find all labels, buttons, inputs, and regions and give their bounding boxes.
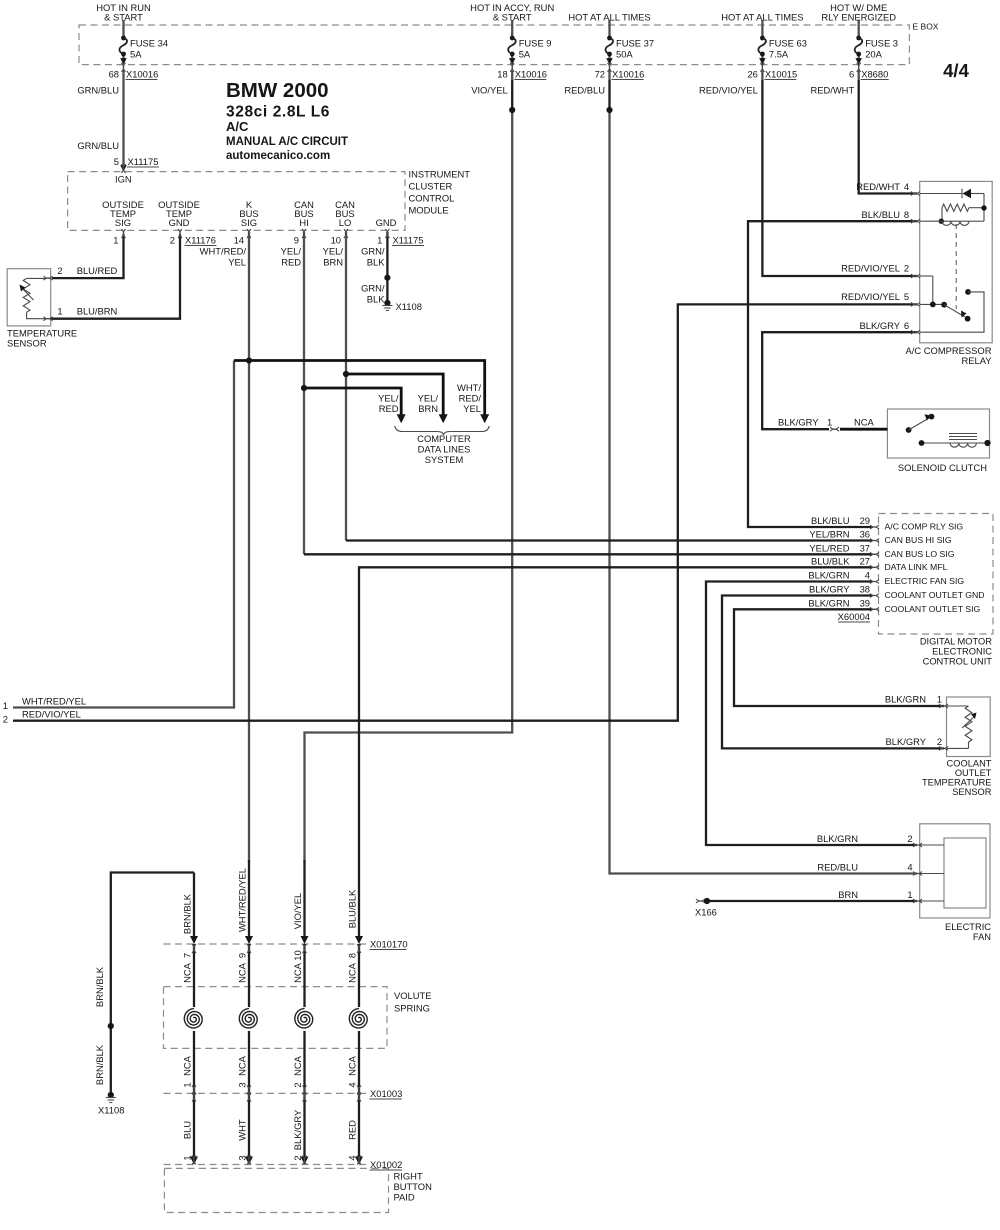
svg-text:328ci 2.8L L6: 328ci 2.8L L6 xyxy=(226,104,330,121)
svg-text:automecanico.com: automecanico.com xyxy=(226,150,330,162)
svg-text:FUSE 34: FUSE 34 xyxy=(130,38,168,49)
svg-text:MANUAL A/C CIRCUIT: MANUAL A/C CIRCUIT xyxy=(226,136,348,148)
svg-text:IGN: IGN xyxy=(115,174,132,185)
svg-text:7: 7 xyxy=(182,953,193,958)
svg-text:YEL/BRN: YEL/BRN xyxy=(809,529,849,540)
svg-text:BLK/GRY: BLK/GRY xyxy=(809,584,850,595)
svg-text:1: 1 xyxy=(57,306,62,317)
svg-text:36: 36 xyxy=(860,529,870,540)
svg-text:INSTRUMENT: INSTRUMENT xyxy=(409,169,471,180)
svg-text:4: 4 xyxy=(904,181,909,192)
svg-text:14: 14 xyxy=(234,235,244,246)
svg-text:BLK/GRN: BLK/GRN xyxy=(885,694,926,705)
svg-text:10: 10 xyxy=(292,950,303,960)
svg-text:PAID: PAID xyxy=(394,1192,415,1203)
svg-text:6: 6 xyxy=(849,69,854,80)
svg-text:X10016: X10016 xyxy=(126,69,158,80)
svg-text:GND: GND xyxy=(169,217,190,228)
svg-text:FUSE 37: FUSE 37 xyxy=(616,38,654,49)
svg-text:72: 72 xyxy=(595,69,605,80)
svg-text:2: 2 xyxy=(907,833,912,844)
svg-text:X11175: X11175 xyxy=(393,235,424,246)
svg-text:BRN: BRN xyxy=(838,889,858,900)
svg-text:7.5A: 7.5A xyxy=(769,49,789,60)
svg-text:RED/VIO/YEL: RED/VIO/YEL xyxy=(22,709,81,720)
svg-text:YEL/: YEL/ xyxy=(281,246,302,257)
svg-text:1: 1 xyxy=(827,417,832,428)
svg-text:X11175: X11175 xyxy=(128,156,159,167)
svg-text:RED/: RED/ xyxy=(459,393,482,404)
svg-text:27: 27 xyxy=(860,555,870,566)
svg-text:WHT: WHT xyxy=(237,1119,248,1141)
svg-text:39: 39 xyxy=(860,597,870,608)
svg-text:VIO/YEL: VIO/YEL xyxy=(292,893,303,929)
svg-text:RED/WHT: RED/WHT xyxy=(810,85,854,96)
svg-text:YEL/: YEL/ xyxy=(378,393,399,404)
svg-text:BLK/GRY: BLK/GRY xyxy=(292,1109,303,1150)
svg-text:5A: 5A xyxy=(130,49,142,60)
svg-text:NCA: NCA xyxy=(182,1055,193,1076)
svg-text:GRN/: GRN/ xyxy=(361,283,385,294)
svg-text:RED/WHT: RED/WHT xyxy=(856,181,900,192)
svg-text:2: 2 xyxy=(292,1082,303,1087)
svg-text:2: 2 xyxy=(170,235,175,246)
svg-text:NCA: NCA xyxy=(292,962,303,983)
svg-text:RED/VIO/YEL: RED/VIO/YEL xyxy=(699,85,758,96)
svg-text:9: 9 xyxy=(237,953,248,958)
svg-text:4/4: 4/4 xyxy=(943,60,969,81)
svg-text:YEL/: YEL/ xyxy=(323,246,344,257)
svg-text:RED/BLU: RED/BLU xyxy=(817,862,858,873)
svg-text:YEL: YEL xyxy=(228,257,246,268)
svg-text:A/C COMP RLY SIG: A/C COMP RLY SIG xyxy=(885,522,964,532)
svg-text:NCA: NCA xyxy=(292,1055,303,1076)
svg-text:4: 4 xyxy=(865,570,870,581)
svg-text:BUTTON: BUTTON xyxy=(394,1181,432,1192)
svg-text:NCA: NCA xyxy=(237,962,248,983)
svg-text:50A: 50A xyxy=(616,49,633,60)
svg-text:RED: RED xyxy=(347,1120,358,1140)
svg-text:FUSE 63: FUSE 63 xyxy=(769,38,807,49)
svg-text:OUTLET: OUTLET xyxy=(955,768,992,778)
svg-text:BLK/GRN: BLK/GRN xyxy=(808,597,849,608)
svg-text:SYSTEM: SYSTEM xyxy=(425,454,464,465)
svg-text:BLK/BLU: BLK/BLU xyxy=(861,209,900,220)
svg-text:& START: & START xyxy=(104,12,143,23)
svg-text:BLK/BLU: BLK/BLU xyxy=(811,515,850,526)
svg-text:& START: & START xyxy=(493,12,532,23)
svg-text:FUSE 3: FUSE 3 xyxy=(865,38,898,49)
svg-text:SENSOR: SENSOR xyxy=(7,337,47,348)
svg-text:HOT AT ALL TIMES: HOT AT ALL TIMES xyxy=(568,12,650,23)
svg-text:CONTROL UNIT: CONTROL UNIT xyxy=(923,657,993,667)
svg-text:WHT/RED/YEL: WHT/RED/YEL xyxy=(22,696,86,707)
svg-text:NCA: NCA xyxy=(347,962,358,983)
svg-text:SIG: SIG xyxy=(115,217,131,228)
svg-text:X10016: X10016 xyxy=(612,69,644,80)
svg-text:SOLENOID CLUTCH: SOLENOID CLUTCH xyxy=(898,462,987,473)
svg-text:GRN/BLU: GRN/BLU xyxy=(77,85,119,96)
svg-text:1: 1 xyxy=(182,1155,193,1160)
svg-text:3: 3 xyxy=(237,1155,248,1160)
svg-text:GND: GND xyxy=(376,217,397,228)
svg-text:BRN: BRN xyxy=(418,403,438,414)
svg-text:BLU/BRN: BLU/BRN xyxy=(77,306,118,317)
svg-text:BRN/BLK: BRN/BLK xyxy=(94,1044,105,1085)
svg-text:3: 3 xyxy=(237,1082,248,1087)
svg-text:10: 10 xyxy=(331,235,341,246)
svg-text:2: 2 xyxy=(57,265,62,276)
svg-text:2: 2 xyxy=(904,263,909,274)
svg-text:5: 5 xyxy=(904,291,909,302)
svg-text:X166: X166 xyxy=(695,907,717,918)
svg-text:YEL: YEL xyxy=(463,403,481,414)
svg-text:68: 68 xyxy=(109,69,119,80)
svg-text:NCA: NCA xyxy=(854,417,875,428)
svg-text:5A: 5A xyxy=(519,49,531,60)
svg-text:LO: LO xyxy=(339,217,352,228)
svg-text:X10015: X10015 xyxy=(765,69,797,80)
svg-text:4: 4 xyxy=(347,1155,358,1160)
svg-text:SIG: SIG xyxy=(241,217,257,228)
svg-text:HOT AT ALL TIMES: HOT AT ALL TIMES xyxy=(721,12,803,23)
svg-text:2: 2 xyxy=(3,714,8,725)
svg-text:DATA LINK MFL: DATA LINK MFL xyxy=(885,562,948,572)
svg-text:18: 18 xyxy=(497,69,507,80)
svg-text:VOLUTE: VOLUTE xyxy=(394,990,432,1001)
svg-text:TEMPERATURE: TEMPERATURE xyxy=(922,778,992,788)
svg-text:1: 1 xyxy=(113,235,118,246)
svg-text:X60004: X60004 xyxy=(838,611,870,622)
svg-text:GRN/BLU: GRN/BLU xyxy=(77,140,119,151)
svg-text:X10016: X10016 xyxy=(515,69,547,80)
svg-text:BLK/GRN: BLK/GRN xyxy=(808,570,849,581)
svg-text:RELAY: RELAY xyxy=(961,355,992,366)
svg-text:NCA: NCA xyxy=(237,1055,248,1076)
svg-text:COOLANT OUTLET GND: COOLANT OUTLET GND xyxy=(885,590,985,600)
svg-text:BMW 2000: BMW 2000 xyxy=(226,79,329,102)
svg-text:29: 29 xyxy=(860,515,870,526)
svg-text:8: 8 xyxy=(347,953,358,958)
svg-text:6: 6 xyxy=(904,320,909,331)
svg-text:YEL/RED: YEL/RED xyxy=(809,542,849,553)
svg-text:RED: RED xyxy=(379,403,399,414)
svg-text:NCA: NCA xyxy=(182,962,193,983)
svg-text:X01002: X01002 xyxy=(370,1159,402,1170)
svg-text:COOLANT: COOLANT xyxy=(947,759,992,769)
svg-text:X8680: X8680 xyxy=(861,69,888,80)
svg-text:BLU/RED: BLU/RED xyxy=(77,265,118,276)
svg-text:A/C: A/C xyxy=(226,119,249,134)
svg-text:BLK: BLK xyxy=(367,294,385,305)
svg-text:WHT/RED/YEL: WHT/RED/YEL xyxy=(237,868,248,932)
svg-text:GRN/: GRN/ xyxy=(361,246,385,257)
svg-text:BLU: BLU xyxy=(182,1121,193,1139)
svg-text:RLY ENERGIZED: RLY ENERGIZED xyxy=(821,12,896,23)
svg-text:BLU/BLK: BLU/BLK xyxy=(811,555,850,566)
svg-text:26: 26 xyxy=(747,69,757,80)
svg-text:X010170: X010170 xyxy=(370,939,408,950)
svg-text:X01003: X01003 xyxy=(370,1088,402,1099)
svg-text:37: 37 xyxy=(860,542,870,553)
svg-text:CONTROL: CONTROL xyxy=(409,193,455,204)
svg-text:CLUSTER: CLUSTER xyxy=(409,181,453,192)
svg-text:1: 1 xyxy=(937,694,942,705)
svg-text:1: 1 xyxy=(907,889,912,900)
svg-text:ELECTRONIC: ELECTRONIC xyxy=(932,647,992,657)
svg-text:CAN BUS HI SIG: CAN BUS HI SIG xyxy=(885,535,952,545)
svg-text:4: 4 xyxy=(907,862,912,873)
svg-text:VIO/YEL: VIO/YEL xyxy=(471,85,507,96)
svg-text:HI: HI xyxy=(299,217,308,228)
svg-text:COOLANT OUTLET SIG: COOLANT OUTLET SIG xyxy=(885,604,981,614)
svg-text:RED/VIO/YEL: RED/VIO/YEL xyxy=(841,263,900,274)
svg-text:9: 9 xyxy=(294,235,299,246)
svg-text:CAN BUS LO SIG: CAN BUS LO SIG xyxy=(885,549,955,559)
svg-text:YEL/: YEL/ xyxy=(418,393,439,404)
svg-text:WHT/RED/: WHT/RED/ xyxy=(200,246,247,257)
svg-text:BLK/GRY: BLK/GRY xyxy=(886,736,927,747)
svg-text:DIGITAL MOTOR: DIGITAL MOTOR xyxy=(920,637,992,647)
svg-text:SENSOR: SENSOR xyxy=(952,787,992,797)
svg-text:FAN: FAN xyxy=(973,932,991,942)
svg-text:E BOX: E BOX xyxy=(913,22,939,32)
svg-text:RIGHT: RIGHT xyxy=(394,1171,423,1182)
svg-text:COMPUTER: COMPUTER xyxy=(417,433,471,444)
svg-text:X11176: X11176 xyxy=(185,235,216,246)
svg-text:1: 1 xyxy=(182,1082,193,1087)
svg-text:BLK/GRY: BLK/GRY xyxy=(860,320,901,331)
svg-text:4: 4 xyxy=(347,1082,358,1087)
svg-text:MODULE: MODULE xyxy=(409,205,449,216)
svg-text:BRN/BLK: BRN/BLK xyxy=(94,966,105,1007)
svg-text:BRN/BLK: BRN/BLK xyxy=(182,893,193,934)
svg-text:5: 5 xyxy=(114,156,119,167)
svg-text:DATA LINES: DATA LINES xyxy=(418,444,471,455)
svg-text:RED: RED xyxy=(281,257,301,268)
svg-text:RED/VIO/YEL: RED/VIO/YEL xyxy=(841,291,900,302)
svg-text:38: 38 xyxy=(860,584,870,595)
svg-text:BLK/GRN: BLK/GRN xyxy=(817,833,858,844)
svg-text:X1108: X1108 xyxy=(396,301,422,312)
svg-text:WHT/: WHT/ xyxy=(457,382,481,393)
svg-text:SPRING: SPRING xyxy=(394,1003,430,1014)
svg-text:BLK/GRY: BLK/GRY xyxy=(778,417,819,428)
svg-text:ELECTRIC: ELECTRIC xyxy=(945,922,991,932)
svg-text:NCA: NCA xyxy=(347,1055,358,1076)
svg-text:1: 1 xyxy=(3,700,8,711)
svg-text:BRN: BRN xyxy=(323,257,343,268)
svg-text:BLU/BLK: BLU/BLK xyxy=(347,889,358,928)
svg-text:2: 2 xyxy=(292,1155,303,1160)
svg-text:FUSE 9: FUSE 9 xyxy=(519,38,552,49)
svg-text:8: 8 xyxy=(904,209,909,220)
svg-text:RED/BLU: RED/BLU xyxy=(564,85,605,96)
svg-text:X1108: X1108 xyxy=(98,1105,124,1116)
svg-text:1: 1 xyxy=(377,235,382,246)
svg-text:2: 2 xyxy=(937,736,942,747)
svg-text:20A: 20A xyxy=(865,49,882,60)
svg-text:ELECTRIC FAN SIG: ELECTRIC FAN SIG xyxy=(885,576,965,586)
svg-text:BLK: BLK xyxy=(367,257,385,268)
